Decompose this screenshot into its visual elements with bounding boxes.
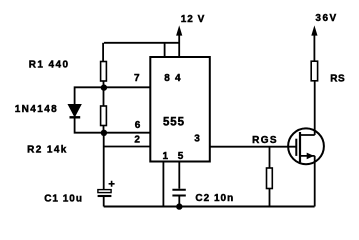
supply 12V arrow (178, 30, 180, 57)
svg-text:4: 4 (175, 73, 181, 84)
wire pin 6 (104, 132, 151, 134)
svg-text:1N4148: 1N4148 (15, 104, 58, 115)
wire pin 3 to gate (210, 146, 296, 148)
svg-text:36V: 36V (315, 13, 337, 24)
resistor RS (311, 61, 317, 81)
capacitor C1 plus sign (109, 181, 115, 187)
svg-text:8: 8 (164, 73, 170, 84)
op IC 555 box (150, 57, 210, 162)
svg-text:7: 7 (134, 73, 140, 84)
wire R2 bottom to node B (103, 126, 105, 133)
svg-text:1: 1 (163, 151, 169, 162)
resistor R1 (101, 62, 107, 82)
wire node A to R2 (103, 87, 105, 106)
wire left rail down to R1 (102, 43, 104, 62)
pin 5 stem (178, 162, 180, 189)
wire C1 to ground rail (103, 197, 105, 207)
node A junction dot (101, 84, 107, 90)
wire pin 7 (104, 86, 151, 88)
capacitor C2 (172, 190, 185, 196)
svg-text:555: 555 (163, 116, 185, 128)
node B junction dot (101, 130, 107, 136)
source arrow (307, 153, 314, 160)
svg-text:C1 10u: C1 10u (44, 194, 83, 205)
capacitor C1 (98, 190, 111, 193)
resistor RGS (267, 168, 273, 189)
resistor R2 (101, 106, 107, 126)
svg-text:6: 6 (135, 120, 141, 131)
wire R1 bottom to node A (103, 81, 105, 87)
pin 8 stem (164, 43, 166, 57)
transistor MOSFET body circle (288, 128, 324, 164)
transistor channel bar (299, 132, 301, 162)
source connection (300, 156, 315, 207)
wire node A to diode branch (75, 87, 104, 104)
svg-text:C2 10n: C2 10n (195, 193, 234, 204)
wire RGS bottom to ground rail (269, 189, 271, 207)
svg-text:5: 5 (178, 151, 184, 162)
svg-text:RS: RS (330, 74, 345, 85)
transistor gate bar (295, 139, 297, 156)
svg-text:R2 14k: R2 14k (27, 145, 68, 156)
drain connection (300, 81, 315, 135)
svg-text:3: 3 (194, 134, 200, 145)
wire top rail from left rail to 12V stem (104, 42, 179, 44)
diode 1N4148 (68, 105, 81, 117)
svg-text:R1 440: R1 440 (29, 60, 70, 71)
node C2-ground junction dot (176, 203, 182, 209)
wire RGS stem top (269, 147, 271, 168)
wire left rail down to C1 (103, 133, 105, 190)
pin 1 stem (162, 162, 164, 207)
supply 36V arrow (313, 30, 315, 61)
svg-text:2: 2 (134, 135, 140, 146)
ground rail (104, 206, 315, 208)
wire diode bottom to node B (75, 117, 104, 132)
svg-text:RGS: RGS (252, 135, 278, 146)
wire pin 2 (104, 146, 151, 148)
svg-text:12 V: 12 V (181, 14, 206, 25)
wire C2 to ground rail (178, 196, 180, 206)
